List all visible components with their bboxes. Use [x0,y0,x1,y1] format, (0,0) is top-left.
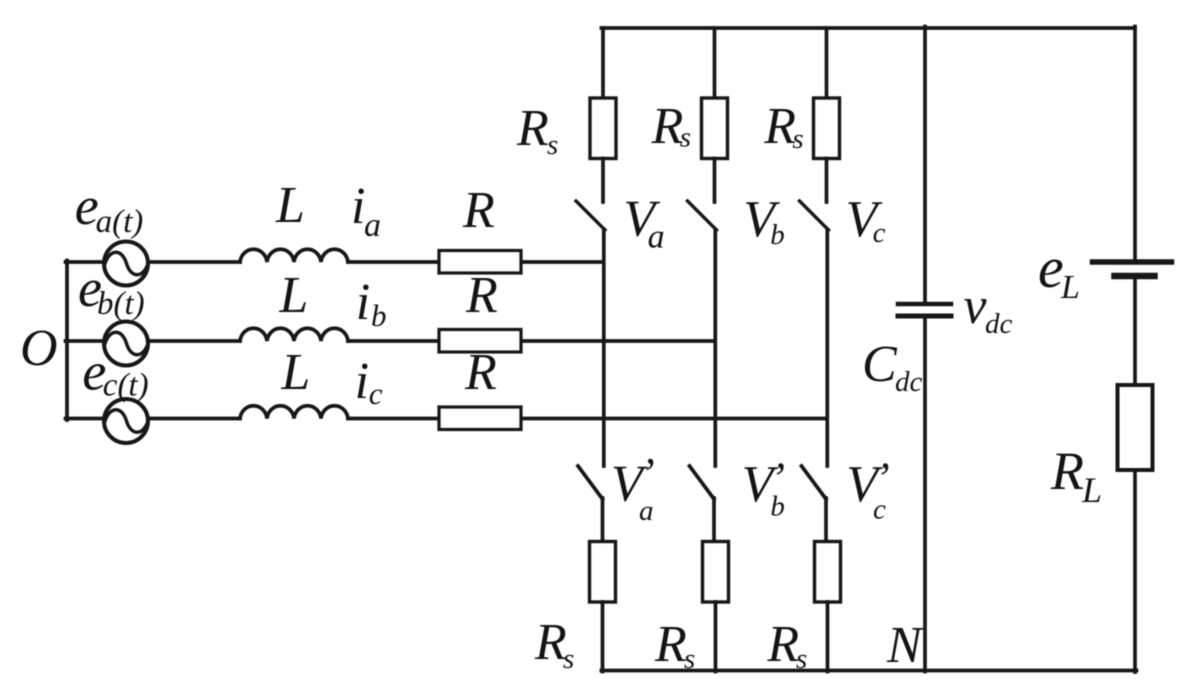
svg-text:s: s [792,123,803,155]
svg-text:’: ’ [640,449,655,498]
wire bottom dc rail [601,669,1136,673]
svg-text:R: R [465,267,498,324]
switch Vb blade [688,201,717,230]
resistor Rs bottom leg 3 [815,542,841,603]
switch V'c blade [802,466,827,499]
svg-text:R: R [654,616,687,673]
svg-text:a: a [648,219,665,256]
wire phase b segment from inductor to leg 2 [348,339,715,343]
source ea circle [104,242,148,286]
inductor L phase b [240,328,348,341]
wire phase a segment from inductor to leg 1 [348,260,603,264]
svg-text:s: s [680,121,691,153]
switch V'a blade [578,466,603,499]
wire leg 1 above switch [601,159,605,203]
svg-text:O: O [20,320,58,377]
wire leg 3 above switch [825,159,829,203]
svg-text:a: a [639,495,654,527]
capacitor Cdc bottom plate [898,314,951,319]
svg-text:L: L [278,267,308,324]
wire capacitor branch top [923,27,927,303]
svg-text:a: a [364,207,381,244]
resistor Rs bottom leg 1 [590,542,616,603]
wire leg 1 below lower switch [601,498,605,542]
wire leg 2 below lower switch [712,498,716,542]
resistor Rs bottom leg 2 [703,542,729,603]
battery eL long plate [1093,259,1172,265]
wire battery to RL [1133,280,1137,386]
svg-text:s: s [684,643,695,675]
resistor Rs top leg 3 [814,98,840,159]
wire leg 1 top stub [601,28,605,98]
wire leg 2 middle [713,230,717,467]
svg-text:dc: dc [985,308,1013,340]
wire leg 3 below lower switch [824,498,828,542]
svg-text:R: R [1050,441,1084,501]
svg-text:L: L [275,177,305,234]
svg-text:L: L [1060,269,1080,306]
svg-text:i: i [356,274,370,331]
svg-text:c(t): c(t) [103,368,149,404]
svg-text:R: R [464,344,497,401]
wire leg 1 bottom stub [601,602,605,672]
switch Vc blade [800,201,829,230]
svg-text:R: R [516,100,549,157]
wire leg 1 middle [602,230,606,467]
switch Va blade [576,201,605,230]
wire leg 2 top stub [713,28,717,98]
source eb circle [104,322,148,366]
inductor L phase c [240,406,348,419]
wire leg 2 above switch [713,159,717,203]
wire phase c segment from bus to inductor [66,417,241,421]
resistor R phase a [439,251,521,274]
svg-text:C: C [862,336,898,393]
resistor Rs top leg 2 [702,98,728,159]
svg-text:b: b [770,490,785,522]
wire leg 3 middle [825,230,829,467]
svg-text:b: b [770,219,785,251]
resistor R phase b [439,330,521,353]
capacitor Cdc top plate [898,302,951,307]
source ec circle [104,399,148,443]
resistor Rs top leg 1 [590,98,616,159]
wire capacitor branch bottom [923,319,927,672]
svg-text:s: s [563,643,574,675]
svg-text:c: c [873,217,886,249]
svg-text:i: i [355,353,369,410]
wire RL to bottom rail [1133,470,1137,672]
wire leg 3 bottom stub [826,602,830,672]
wire load branch top [1133,27,1137,260]
svg-text:c: c [873,493,886,525]
wire leg 3 top stub [825,28,829,98]
switch V'b blade [690,466,715,499]
svg-text:L: L [1081,470,1102,510]
wire phase c segment from inductor to leg 3 [348,417,827,421]
wire top dc rail [601,26,1135,30]
inductor L phase a [240,249,348,262]
svg-text:R: R [651,98,684,155]
svg-text:R: R [462,182,495,239]
resistor RL [1118,385,1153,470]
svg-text:dc: dc [895,366,923,398]
svg-text:c: c [369,376,383,411]
svg-text:b: b [371,298,387,333]
wire phase b segment from bus to inductor [66,339,241,343]
wire leg 2 bottom stub [714,602,718,672]
svg-text:b(t): b(t) [97,286,145,322]
svg-text:s: s [547,129,558,161]
svg-text:e: e [1038,235,1064,300]
svg-text:a(t): a(t) [96,204,144,240]
svg-text:s: s [796,643,807,675]
svg-text:N: N [886,617,925,674]
svg-text:L: L [280,344,310,401]
svg-text:R: R [766,616,799,673]
svg-text:v: v [963,278,987,335]
battery eL short plate [1115,273,1155,280]
resistor R phase c [439,407,521,430]
svg-text:R: R [534,614,567,671]
svg-text:R: R [763,98,796,155]
wire phase a segment from bus to inductor [66,260,241,264]
wire left neutral bus [65,261,69,421]
